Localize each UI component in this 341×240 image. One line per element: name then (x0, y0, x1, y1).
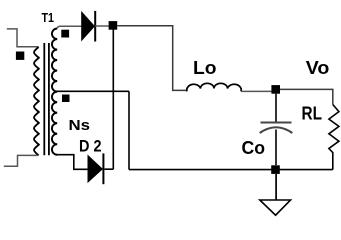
wire node A to Lo (117, 26, 187, 91)
transformer T1 primary winding (34, 47, 39, 155)
capacitor Co stem bottom (275, 130, 277, 166)
wire node A to D2 cathode (105, 30, 114, 170)
svg-text:T1: T1 (42, 11, 55, 25)
wire Lo to output junction (241, 90, 271, 92)
polarity dot secondary top (61, 30, 69, 38)
output junction square (271, 85, 280, 94)
capacitor Co stem top (275, 94, 277, 122)
wire secondary tap (55, 90, 129, 92)
wire tap to return rail (128, 91, 130, 169)
wire primary bottom lead (4, 155, 39, 166)
svg-text:Ns: Ns (69, 118, 91, 134)
transformer core (44, 43, 49, 155)
svg-text:Co: Co (242, 138, 266, 158)
node A junction square (109, 21, 118, 30)
wire output junction to RL top (280, 89, 333, 104)
polarity dot secondary Ns (62, 95, 70, 103)
wire secondary top to D1 (57, 26, 81, 28)
svg-text:RL: RL (302, 103, 323, 123)
wire secondary bottom to D2 (55, 155, 87, 170)
diode D1 (82, 12, 95, 40)
ground symbol (260, 200, 291, 215)
transformer T1 secondary winding Ns (52, 29, 57, 155)
diode D2 (88, 156, 102, 182)
ground junction square (271, 165, 280, 174)
inductor Lo (187, 83, 241, 91)
resistor RL (329, 105, 339, 170)
svg-text:Vo: Vo (306, 58, 330, 78)
return rail (129, 169, 333, 171)
ground stem (275, 174, 277, 200)
capacitor Co top plate (261, 122, 292, 124)
polarity dot primary (16, 52, 24, 60)
wire D1 cathode to node A (95, 25, 108, 27)
wire primary top lead (7, 29, 39, 47)
svg-text:Lo: Lo (193, 58, 217, 78)
svg-text:D 2: D 2 (79, 136, 102, 155)
capacitor Co curved plate (260, 127, 293, 133)
